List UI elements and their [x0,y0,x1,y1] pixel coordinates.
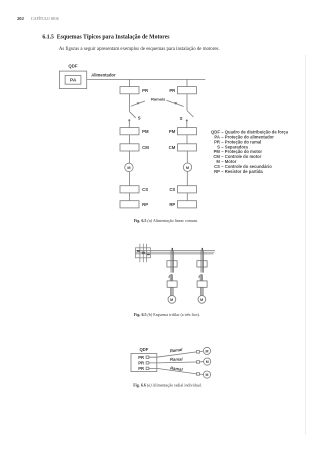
svg-text:202: 202 [17,16,25,21]
motor M circle branch2 [183,163,191,171]
switch blade bundle tap1 [169,275,171,281]
breaker contact mark a [137,250,140,252]
svg-text:As figuras a seguir apresentam: As figuras a seguir apresentam exemplos … [59,47,220,52]
svg-text:CAPÍTULO SEIS: CAPÍTULO SEIS [31,16,59,21]
junction tick tap2 [201,248,203,251]
wire PM-CM branch1 [129,135,131,144]
svg-text:Ramal: Ramal [170,357,183,362]
wire branch2 to PM [186,121,188,128]
breaker contact mark b [142,252,145,254]
svg-text:Fig. 6.6 (a) Alimentação radia: Fig. 6.6 (a) Alimentação radial individu… [133,383,202,388]
legend for diagram 1 [211,130,289,174]
fuse load symbol 2 [197,361,200,364]
wire to motor 2 [200,361,204,363]
switch hook tap1 [169,275,173,279]
svg-text:PM: PM [142,129,149,134]
svg-text:Fig. 6.5 (b) Esquema trifilar: Fig. 6.5 (b) Esquema trifilar (a três fi… [134,312,200,317]
breaker contact mark c [147,253,150,255]
junction dot branch2 [186,120,188,122]
motor M circle 3 [203,371,210,378]
wire bundle tap1 lower [170,287,172,295]
starting resistor RP box branch1 [120,201,139,208]
protection PR box branch1 [120,87,139,94]
contactor CM box branch1 [120,144,139,151]
wire branch1 drop [129,79,131,86]
wire branch2 below PR [186,94,188,111]
wire feeder [87,78,206,80]
junction dot branch1 [128,119,130,121]
disconnect switch S branch2 [187,111,193,117]
wire M-CS branch2 [186,172,188,186]
disconnect switch S branch1 [130,112,136,118]
bus line L2 [135,251,214,253]
motor M circle tap2 [198,296,206,304]
tap 1 [167,248,177,303]
svg-text:CS: CS [142,187,148,192]
wire bundle tap2 lower [200,287,202,295]
fuse load symbol 3 [197,373,200,376]
svg-text:M: M [186,166,189,170]
leader arrow to branch1 [131,101,145,106]
wire bundle tap1 upper [170,251,172,273]
protection box tap2 [197,261,207,267]
secondary control CS box branch1 [120,186,139,193]
wire CS-RP branch1 [129,193,131,201]
svg-text:PR: PR [138,360,144,365]
arrowhead branch1 leader [137,102,140,105]
motor M circle 1 [203,347,210,354]
incoming device box QDF [135,248,150,258]
svg-text:RP: RP [142,202,148,207]
labels diagram 1 [68,63,189,207]
svg-text:PA: PA [70,78,77,84]
svg-text:Fig. 6.5 (a) Alimentação linea: Fig. 6.5 (a) Alimentação linear comum. [134,218,198,223]
junction tick tap1 [171,248,173,251]
svg-text:Ramais: Ramais [151,96,166,101]
svg-text:CM: CM [169,145,176,150]
starting resistor RP box branch2 [178,201,197,208]
svg-text:PM: PM [169,129,176,134]
switch hook tap2 [199,275,203,279]
svg-text:6.1.5 Esquemas Típicos para I: 6.1.5 Esquemas Típicos para Instalação d… [42,35,170,41]
wire CM-M branch1 [129,151,131,163]
wire to motor 3 [200,373,204,375]
wire CS-RP branch2 [186,193,188,201]
wire ramal 3 [149,368,197,374]
wire branch1 to PM [128,121,130,128]
svg-text:QDF: QDF [68,63,77,68]
svg-text:Alimentador: Alimentador [91,73,116,78]
fuse PR symbol row3 [146,367,149,369]
wire M-CS branch1 [129,172,131,186]
svg-text:QDF: QDF [140,347,149,352]
contactor box tap2 [197,281,207,287]
svg-text:Ramal: Ramal [170,365,184,372]
svg-text:M: M [206,373,209,377]
QDF panel box [59,71,86,89]
incoming phase conductor a [139,244,141,263]
QDF box [131,353,157,371]
wire ramal 1 [149,352,197,357]
wire branch2 drop [186,79,188,86]
page header [17,16,59,21]
motor M circle 2 [204,358,211,365]
svg-text:CM: CM [142,145,149,150]
svg-text:PR: PR [138,355,144,360]
svg-text:CS: CS [169,187,175,192]
svg-text:PR: PR [169,88,176,93]
tap 2 [197,248,207,303]
wire bundle tap2 upper [200,251,202,273]
wire to motor 1 [200,350,204,353]
fuse PR symbol row1 [146,356,149,358]
svg-text:S: S [138,115,141,120]
svg-text:M: M [127,166,130,170]
protection PM box branch2 [178,128,197,135]
motor M circle tap1 [168,296,176,304]
arrowhead branch2 leader [174,102,177,105]
protection box tap1 [167,261,177,267]
fuse PR symbol row2 [146,362,149,364]
svg-text:– Resistor de partida: – Resistor de partida [221,169,263,174]
svg-text:PR: PR [142,88,149,93]
bus line L3 [135,253,213,255]
secondary control CS box branch2 [178,186,197,193]
svg-text:PR: PR [138,366,144,371]
contactor CM box branch2 [178,144,197,151]
fuse load symbol 1 [197,351,200,354]
switch blade bundle tap2 [199,275,201,281]
protection PA box [65,76,81,85]
svg-text:S: S [180,116,183,121]
svg-text:M: M [206,360,209,364]
svg-text:RP: RP [214,169,220,174]
bus line L1 [135,250,215,252]
wire branch1 below PR [129,94,131,112]
wire ramal 2 [149,361,197,364]
motor M circle branch1 [125,163,133,171]
svg-text:M: M [170,298,173,302]
svg-text:Ramal: Ramal [170,347,184,354]
contactor box tap1 [167,281,177,287]
scan fold line [305,55,307,435]
svg-text:M: M [206,349,209,353]
leader arrow to branch2 [167,100,184,106]
svg-text:RP: RP [169,202,175,207]
svg-text:M: M [200,298,203,302]
protection PR box branch2 [178,87,197,94]
protection PM box branch1 [120,128,139,135]
wire PM-CM branch2 [186,135,188,144]
incoming phase conductor b [142,244,144,263]
wire CM-M branch2 [186,151,188,163]
incoming phase conductor c [145,244,147,263]
